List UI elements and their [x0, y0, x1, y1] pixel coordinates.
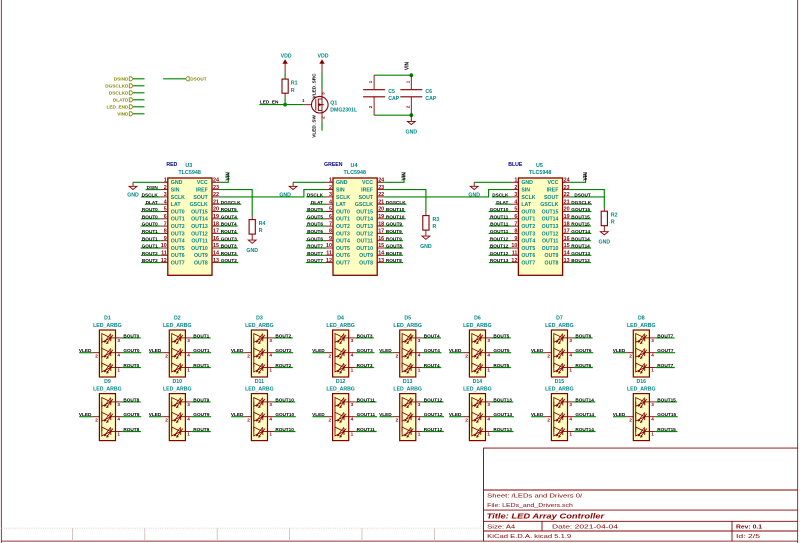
LED D7 LED_ARBG	[544, 316, 574, 377]
wire	[79, 352, 92, 354]
svg-text:ROUT8: ROUT8	[123, 427, 139, 432]
cathode pin	[349, 416, 356, 418]
svg-text:DLATD: DLATD	[113, 98, 129, 103]
svg-text:2: 2	[165, 417, 168, 422]
cathode pin	[116, 401, 123, 403]
svg-text:3: 3	[569, 402, 572, 407]
net label VLED	[231, 348, 244, 353]
wire	[145, 203, 161, 205]
net label GOUT10	[275, 412, 294, 417]
cathode pin	[568, 416, 575, 418]
cathode pin	[649, 352, 656, 354]
pin 14 OUT9	[563, 254, 570, 256]
svg-text:1: 1	[187, 367, 190, 372]
net label GOUT7	[307, 258, 324, 263]
svg-text:2: 2	[465, 353, 468, 358]
LED element	[172, 334, 181, 343]
svg-text:KiCad E.D.A. kicad 5.1.9: KiCad E.D.A. kicad 5.1.9	[487, 534, 571, 540]
power GND	[599, 232, 611, 246]
net label DLAT	[146, 200, 158, 205]
svg-text:CAP: CAP	[425, 96, 436, 102]
cathode pin	[116, 352, 123, 354]
svg-text:BOUT0: BOUT0	[123, 333, 139, 338]
wire	[355, 401, 376, 403]
net label ROUT13	[493, 427, 512, 432]
wire	[133, 106, 144, 108]
wire	[489, 254, 512, 256]
emission arrows	[104, 363, 111, 372]
emission arrows	[474, 398, 481, 407]
svg-text:DGSCLK: DGSCLK	[221, 200, 241, 205]
pin 5 OUT0	[326, 211, 333, 213]
svg-text:GOUT11: GOUT11	[490, 229, 509, 234]
pin 24 VCC	[212, 181, 219, 183]
wire	[384, 211, 405, 213]
net label GOUT3	[357, 348, 374, 353]
svg-text:BOUT3: BOUT3	[357, 333, 373, 338]
pin 12 OUT7	[326, 262, 333, 264]
pin 17 OUT12	[212, 232, 219, 234]
svg-text:GND: GND	[406, 130, 418, 136]
net label BOUT13	[571, 258, 590, 263]
net label ROUT5	[221, 207, 237, 212]
LED D10 LED_ARBG	[162, 379, 192, 440]
svg-text:BOUT1: BOUT1	[142, 236, 158, 241]
wire	[656, 337, 675, 339]
net label BOUT2	[275, 333, 291, 338]
wire	[192, 337, 211, 339]
pin 24 VCC	[377, 181, 384, 183]
cathode pin	[649, 416, 656, 418]
wire	[274, 431, 296, 433]
LED D4 LED_ARBG	[326, 316, 356, 377]
internal anode rail	[401, 338, 403, 368]
svg-text:3: 3	[269, 402, 272, 407]
emission arrows	[174, 363, 181, 372]
emission arrows	[638, 334, 645, 343]
pin 3 (top)	[321, 90, 323, 99]
pin 11 OUT6	[326, 254, 333, 256]
net label BOUT14	[575, 397, 594, 402]
wire	[422, 367, 441, 369]
svg-text:LED_ARBG: LED_ARBG	[163, 386, 192, 392]
net label BOUT1	[193, 333, 209, 338]
svg-text:1: 1	[164, 178, 167, 184]
wire	[231, 416, 244, 418]
svg-text:GOUT4: GOUT4	[221, 214, 238, 219]
LED element	[554, 363, 563, 372]
cathode pin	[349, 337, 356, 339]
svg-text:BOUT2: BOUT2	[275, 333, 291, 338]
pin 14 OUT9	[212, 254, 219, 256]
emission arrows	[104, 348, 111, 357]
svg-text:RED: RED	[166, 162, 177, 168]
wire	[422, 431, 444, 433]
svg-text:24: 24	[213, 178, 219, 184]
emission arrows	[405, 363, 412, 372]
internal anode rail	[334, 402, 336, 432]
net label BOUT13	[493, 397, 512, 402]
svg-text:3: 3	[569, 338, 572, 343]
wire	[133, 181, 161, 183]
svg-text:3: 3	[418, 402, 421, 407]
pin 9 OUT4	[161, 240, 168, 242]
svg-text:OUT12: OUT12	[191, 231, 208, 237]
pin 7 OUT2	[161, 225, 168, 227]
wire	[274, 416, 296, 418]
wire	[574, 416, 596, 418]
svg-text:OUT8: OUT8	[545, 261, 559, 267]
net label DGSCLK	[571, 200, 591, 205]
svg-text:BOUT9: BOUT9	[193, 397, 209, 402]
wire	[422, 416, 444, 418]
emission arrows	[405, 334, 412, 343]
svg-text:4: 4	[569, 353, 572, 358]
svg-text:BOUT15: BOUT15	[571, 214, 590, 219]
svg-text:OUT3: OUT3	[336, 231, 350, 237]
wire	[489, 247, 511, 249]
cathode pin	[486, 431, 493, 433]
cathode pin	[349, 401, 356, 403]
net label BOUT0	[142, 214, 158, 219]
net label BOUT1	[142, 236, 158, 241]
svg-text:C5: C5	[388, 89, 395, 95]
net label VIN	[401, 172, 407, 181]
svg-text:Id: 2/5: Id: 2/5	[736, 534, 760, 540]
wire	[274, 401, 295, 403]
wire	[384, 262, 403, 264]
svg-text:DSIN: DSIN	[147, 185, 159, 190]
svg-text:OUT1: OUT1	[171, 217, 185, 223]
svg-text:BOUT15: BOUT15	[657, 397, 676, 402]
net label VLED	[79, 412, 92, 417]
svg-text:OUT15: OUT15	[542, 209, 559, 215]
net label BOUT14	[571, 236, 590, 241]
svg-text:SOUT: SOUT	[544, 195, 559, 201]
net label BOUT10	[386, 207, 405, 212]
svg-text:GND: GND	[336, 180, 348, 186]
LED element	[335, 427, 344, 436]
power GND	[127, 182, 139, 198]
svg-text:23: 23	[378, 185, 384, 191]
LED D8 LED_ARBG	[626, 316, 656, 377]
svg-text:4: 4	[164, 199, 167, 205]
svg-text:2: 2	[320, 116, 325, 119]
svg-text:2: 2	[396, 417, 399, 422]
wire	[141, 225, 161, 227]
emission arrows	[174, 334, 181, 343]
svg-text:3: 3	[487, 338, 490, 343]
IC U4 TLC5948 (GREEN channel driver)	[324, 162, 384, 275]
LED element	[254, 334, 263, 343]
svg-text:22: 22	[213, 192, 219, 198]
wire	[312, 352, 325, 354]
hierarchical label DGSCLKD	[105, 84, 133, 89]
internal anode rail	[334, 338, 336, 368]
cathode pin	[568, 337, 575, 339]
net label DLAT	[311, 200, 323, 205]
LED element	[636, 348, 645, 357]
svg-text:SCLK: SCLK	[171, 195, 185, 201]
svg-text:9: 9	[514, 236, 517, 242]
svg-text:VDD: VDD	[281, 54, 292, 60]
emission arrows	[556, 334, 563, 343]
svg-text:DSOUT: DSOUT	[190, 77, 207, 82]
svg-text:OUT10: OUT10	[356, 246, 373, 252]
wire	[531, 416, 544, 418]
net label ROUT12	[490, 236, 509, 241]
svg-text:SOUT: SOUT	[359, 195, 374, 201]
svg-text:3: 3	[351, 338, 354, 343]
svg-text:4: 4	[329, 199, 332, 205]
svg-text:OUT13: OUT13	[356, 224, 373, 230]
wire	[384, 240, 403, 242]
svg-text:Size: A4: Size: A4	[487, 525, 515, 531]
wire	[656, 352, 675, 354]
net label DSCLK	[492, 193, 509, 198]
net label VLED	[449, 412, 462, 417]
LED element	[254, 427, 263, 436]
net label BOUT0	[123, 333, 139, 338]
cathode pin	[568, 401, 575, 403]
svg-text:OUT5: OUT5	[336, 246, 350, 252]
wire	[489, 262, 512, 264]
net label BOUT8	[386, 251, 402, 256]
pin 14 OUT9	[377, 254, 384, 256]
wire	[274, 367, 293, 369]
svg-text:GSCLK: GSCLK	[190, 202, 208, 208]
svg-text:1: 1	[187, 431, 190, 436]
svg-text:BOUT6: BOUT6	[575, 333, 591, 338]
net label VLED	[312, 412, 325, 417]
svg-text:24: 24	[378, 178, 384, 184]
pin 21 GSCLK	[377, 203, 384, 205]
pin 9 OUT4	[326, 240, 333, 242]
svg-text:OUT2: OUT2	[336, 224, 350, 230]
svg-text:GOUT12: GOUT12	[490, 251, 509, 256]
net label BOUT12	[424, 397, 443, 402]
svg-text:4: 4	[117, 417, 120, 422]
svg-text:VIN: VIN	[226, 172, 232, 181]
svg-text:3: 3	[320, 92, 325, 95]
wire	[306, 196, 326, 198]
pin 12 OUT7	[161, 262, 168, 264]
svg-text:VLED: VLED	[149, 412, 162, 417]
svg-text:BOUT4: BOUT4	[221, 222, 237, 227]
resistor R1	[282, 79, 298, 97]
svg-text:LED_ARBG: LED_ARBG	[326, 323, 355, 329]
emission arrows	[556, 348, 563, 357]
pin 18 OUT13	[563, 225, 570, 227]
net label GOUT9	[193, 412, 210, 417]
LED element	[172, 348, 181, 357]
power GND	[279, 182, 297, 198]
junction	[409, 73, 413, 77]
svg-text:2: 2	[328, 353, 331, 358]
svg-text:7: 7	[164, 221, 167, 227]
svg-text:6: 6	[164, 214, 167, 220]
svg-text:23: 23	[213, 185, 219, 191]
pin 2 (bottom)	[321, 110, 323, 121]
svg-text:BOUT7: BOUT7	[657, 333, 673, 338]
LED D9 LED_ARBG	[92, 379, 122, 440]
resistor R4	[249, 216, 265, 240]
wire	[380, 416, 393, 418]
svg-text:1: 1	[351, 431, 354, 436]
svg-text:3: 3	[164, 192, 167, 198]
pin 15 OUT10	[377, 247, 384, 249]
pin 19 OUT14	[563, 218, 570, 220]
svg-text:GND: GND	[599, 240, 611, 246]
net label GOUT15	[571, 207, 590, 212]
hierarchical label DSIND	[114, 77, 133, 82]
wire	[310, 203, 326, 205]
emission arrows	[104, 412, 111, 421]
svg-text:21: 21	[213, 199, 219, 205]
pin 10 OUT5	[161, 247, 168, 249]
svg-text:15: 15	[564, 243, 570, 249]
net label VIN	[404, 61, 410, 70]
net label DSCLK	[142, 193, 159, 198]
cathode pin	[116, 337, 123, 339]
svg-text:GND: GND	[127, 192, 139, 198]
LED element	[554, 398, 563, 407]
wire	[219, 225, 238, 227]
wire	[219, 190, 252, 217]
svg-text:LAT: LAT	[171, 202, 182, 208]
svg-text:VIN: VIN	[583, 172, 589, 181]
net label GOUT11	[490, 229, 509, 234]
cathode pin	[568, 352, 575, 354]
svg-text:SIN: SIN	[521, 188, 530, 194]
svg-text:DSCLK: DSCLK	[492, 193, 509, 198]
hierarchical label DSOUT	[186, 77, 207, 82]
svg-text:OUT10: OUT10	[542, 246, 559, 252]
svg-text:OUT4: OUT4	[521, 239, 535, 245]
svg-text:14: 14	[378, 251, 384, 257]
svg-text:ROUT13: ROUT13	[490, 258, 509, 263]
wire	[449, 352, 462, 354]
emission arrows	[256, 348, 263, 357]
svg-text:ROUT5: ROUT5	[493, 363, 509, 368]
svg-text:LED_ARBG: LED_ARBG	[163, 323, 192, 329]
cathode pin	[649, 337, 656, 339]
net label ROUT13	[490, 258, 509, 263]
cathode pin	[649, 431, 656, 433]
svg-text:TLC5948: TLC5948	[344, 170, 366, 176]
svg-text:GOUT6: GOUT6	[575, 348, 592, 353]
svg-text:13: 13	[564, 258, 570, 264]
pin 24 VCC	[563, 181, 570, 183]
LED element	[254, 398, 263, 407]
hierarchical label VIND	[117, 112, 133, 117]
svg-text:16: 16	[378, 236, 384, 242]
emission arrows	[174, 427, 181, 436]
svg-text:3: 3	[514, 192, 517, 198]
svg-text:R2: R2	[611, 212, 618, 218]
net label ROUT6	[575, 363, 591, 368]
pin 17 OUT12	[377, 232, 384, 234]
net label DSIN	[147, 185, 159, 190]
pin 22 SOUT	[377, 196, 384, 198]
svg-text:BOUT14: BOUT14	[575, 397, 594, 402]
wire	[141, 196, 161, 198]
LED element	[636, 334, 645, 343]
emission arrows	[474, 363, 481, 372]
capacitor C6	[400, 75, 437, 115]
cathode pin	[416, 352, 423, 354]
cathode pin	[185, 337, 192, 339]
svg-text:BOUT10: BOUT10	[275, 397, 294, 402]
net label ROUT0	[123, 363, 139, 368]
svg-text:LED_ARBG: LED_ARBG	[93, 386, 122, 392]
svg-text:1: 1	[117, 431, 120, 436]
wire	[570, 240, 591, 242]
svg-text:13: 13	[213, 258, 219, 264]
svg-text:4: 4	[351, 353, 354, 358]
svg-text:LED_ARBG: LED_ARBG	[326, 386, 355, 392]
cathode pin	[268, 416, 275, 418]
cathode pin	[185, 416, 192, 418]
svg-text:DLAT: DLAT	[311, 200, 323, 205]
svg-text:D15: D15	[555, 379, 565, 385]
svg-text:GOUT13: GOUT13	[571, 251, 590, 256]
wire	[613, 416, 626, 418]
svg-text:OUT15: OUT15	[191, 209, 208, 215]
net label GOUT4	[424, 348, 441, 353]
pin 4 LAT	[161, 203, 168, 205]
svg-text:DLAT: DLAT	[496, 200, 508, 205]
wire	[355, 337, 374, 339]
svg-text:BOUT11: BOUT11	[357, 397, 376, 402]
LED element	[102, 398, 111, 407]
svg-text:BOUT8: BOUT8	[123, 397, 139, 402]
svg-text:D9: D9	[104, 379, 111, 385]
wire	[122, 367, 141, 369]
emission arrows	[256, 427, 263, 436]
wire	[489, 225, 511, 227]
wire	[574, 367, 593, 369]
wire SOUT U3 to SIN U4	[219, 190, 326, 197]
svg-text:GOUT15: GOUT15	[657, 412, 676, 417]
net label ROUT7	[657, 363, 673, 368]
svg-text:BOUT4: BOUT4	[424, 333, 440, 338]
svg-text:ROUT15: ROUT15	[657, 427, 676, 432]
wire	[192, 416, 211, 418]
net label ROUT14	[571, 244, 590, 249]
svg-text:ROUT4: ROUT4	[424, 363, 440, 368]
net label BOUT9	[193, 397, 209, 402]
svg-text:1: 1	[651, 367, 654, 372]
svg-text:GOUT0: GOUT0	[142, 222, 159, 227]
svg-text:LED_ARBG: LED_ARBG	[393, 323, 422, 329]
svg-text:Title: LED Array Controller: Title: LED Array Controller	[487, 512, 606, 521]
svg-text:GND: GND	[521, 180, 533, 186]
svg-text:VLED: VLED	[231, 348, 244, 353]
internal anode rail	[101, 402, 103, 432]
net label BOUT6	[575, 333, 591, 338]
gate bar	[315, 99, 317, 110]
svg-text:D12: D12	[336, 379, 346, 385]
svg-text:ROUT0: ROUT0	[123, 363, 139, 368]
net label GOUT5	[307, 214, 324, 219]
svg-text:16: 16	[564, 236, 570, 242]
pin 7 OUT2	[511, 225, 518, 227]
svg-text:3: 3	[187, 402, 190, 407]
net label ROUT8	[123, 427, 139, 432]
svg-text:BOUT14: BOUT14	[571, 236, 590, 241]
svg-text:OUT12: OUT12	[356, 231, 373, 237]
